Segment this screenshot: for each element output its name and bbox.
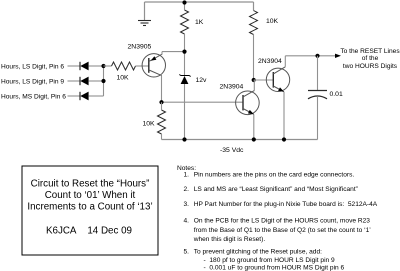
wire diode D3 cathode lead [89,95,104,97]
transistor Q2 2N3904 circle [236,91,260,115]
title text [27,178,152,236]
wire capacitor to bottom rail [317,96,319,139]
wire node to Q3 base [254,79,274,81]
title box [22,166,158,255]
resistor 1K [181,10,189,34]
svg-text:- 0.001 uF to ground from HOU: - 0.001 uF to ground from HOUR MS Digit … [204,264,345,271]
svg-text:from the Base of Q1 to the Bas: from the Base of Q1 to the Base of Q2 (t… [194,227,372,234]
svg-text:12v: 12v [196,77,208,84]
wire Q1 emitter to zener node [162,51,185,53]
svg-text:To prevent glitching of the Re: To prevent glitching of the Reset pulse,… [194,248,322,255]
svg-text:Pin numbers are the pins on th: Pin numbers are the pins on the card edg… [194,172,355,179]
node capacitor junction [315,54,319,58]
transistor Q1 base bar [148,58,150,73]
diode D3 [80,92,89,101]
svg-text:-35 Vdc: -35 Vdc [220,147,244,154]
svg-text:1.: 1. [184,172,190,179]
node Q1 collector junction [159,100,163,104]
wire ground drop [144,2,146,20]
notes text [177,165,378,271]
transistor Q2 base bar [242,95,244,110]
node Q2 collector / Q3 base junction [252,78,256,82]
svg-text:Hours, LS Digit, Pin 9: Hours, LS Digit, Pin 9 [1,79,64,86]
transistor Q3 2N3904 circle [266,68,289,91]
ground [138,21,151,26]
transistor Q1 emitter lead [149,54,162,61]
wire diode D3 anode lead [68,95,81,97]
wire 10K to Q2/Q3 node [253,35,255,81]
svg-text:Circuit to Reset the “Hours”: Circuit to Reset the “Hours” [31,178,150,189]
wire diode D2 cathode lead [89,80,104,82]
transistor Q3 base bar [272,72,274,88]
wire top rail [145,1,254,3]
svg-text:1K: 1K [195,19,204,26]
wire zener to bottom rail [184,84,186,140]
transistor Q1 collector lead [149,70,162,76]
svg-text:On the PCB for the LS Digit of: On the PCB for the LS Digit of the HOURS… [194,217,371,224]
svg-text:4.: 4. [184,217,190,224]
transistor Q3 collector lead [273,67,285,74]
wire 1K top [184,2,186,10]
node Q3 emitter rail junction [282,137,286,141]
wire 1K bottom to zener [184,34,186,76]
reset output arrow [335,54,341,58]
svg-text:2.: 2. [184,186,190,193]
wire node to capacitor [317,56,319,91]
transistor Q1 2N3905 circle [142,54,165,77]
resistor 10K (top right) [250,11,258,35]
svg-text:2N3904: 2N3904 [220,84,244,91]
node Q2 emitter rail junction [252,137,256,141]
transistor Q3 emitter lead [273,86,284,92]
wire bottom rail -35 Vdc [162,139,318,141]
svg-text:5.: 5. [184,248,190,255]
svg-text:To the RESET Lines: To the RESET Lines [340,48,400,55]
wire Q1 collector to Q2 base [162,101,244,103]
diode D1 [80,62,89,71]
wire Q3 emitter to rail [283,92,285,140]
svg-text:of the: of the [362,55,379,62]
svg-text:Increments to a Count of ‘13’: Increments to a Count of ‘13’ [27,201,152,212]
wire Q3 collector to reset output [285,55,336,57]
wire top rail corner to 10K [253,2,255,11]
resistor 10K (Q1 base) [112,62,136,70]
diode D2 [80,77,89,86]
svg-text:3.: 3. [184,201,190,208]
svg-text:HP Part Number for the plug-in: HP Part Number for the plug-in Nixie Tub… [194,201,378,208]
svg-text:10K: 10K [143,121,156,128]
node top rail junction [182,0,186,4]
wire resistor to Q1 base [136,65,149,67]
node zener top junction [182,50,186,54]
svg-text:Count to ‘01’ When it: Count to ‘01’ When it [45,190,136,201]
svg-text:- 180 pf to ground from HOUR: - 180 pf to ground from HOUR LS Digit pi… [204,257,336,264]
svg-text:10K: 10K [266,18,279,25]
svg-text:0.01: 0.01 [330,91,343,98]
wire diode bus vertical [103,66,105,96]
wire bus to R base resistor [104,65,112,67]
transistor Q2 collector lead [243,91,254,97]
resistor 10K (Q1 collector load) [158,110,166,134]
svg-text:Hours, LS Digit, Pin 6: Hours, LS Digit, Pin 6 [1,64,64,71]
wire diode D2 anode lead [68,80,81,82]
node diode bus row2 junction [101,79,105,83]
svg-text:10K: 10K [117,75,130,82]
wire diode D1 anode lead [68,65,81,67]
wire diode D1 cathode lead [89,65,104,67]
svg-text:Hours, MS Digit, Pin 6: Hours, MS Digit, Pin 6 [1,94,66,101]
svg-text:when this digit is Reset).: when this digit is Reset). [193,236,266,243]
node diode bus row1 junction [101,64,105,68]
wire Q1 collector down [161,76,163,103]
zener diode 12v [179,75,190,85]
node zener bottom rail junction [182,137,186,141]
svg-text:2N3904: 2N3904 [258,58,282,65]
transistor Q2 emitter lead [243,109,254,115]
svg-text:2N3905: 2N3905 [128,44,152,51]
svg-text:two HOURS Digits: two HOURS Digits [343,63,398,70]
svg-text:K6JCA 14 Dec 09: K6JCA 14 Dec 09 [46,225,132,236]
wire Q2 emitter to rail [253,114,255,139]
wire collector node to 10K [161,102,163,110]
svg-text:LS and MS are “Least Significa: LS and MS are “Least Significant” and “M… [194,186,358,193]
capacitor 0.01 [308,91,327,99]
wire 10K to bottom rail [161,134,163,140]
